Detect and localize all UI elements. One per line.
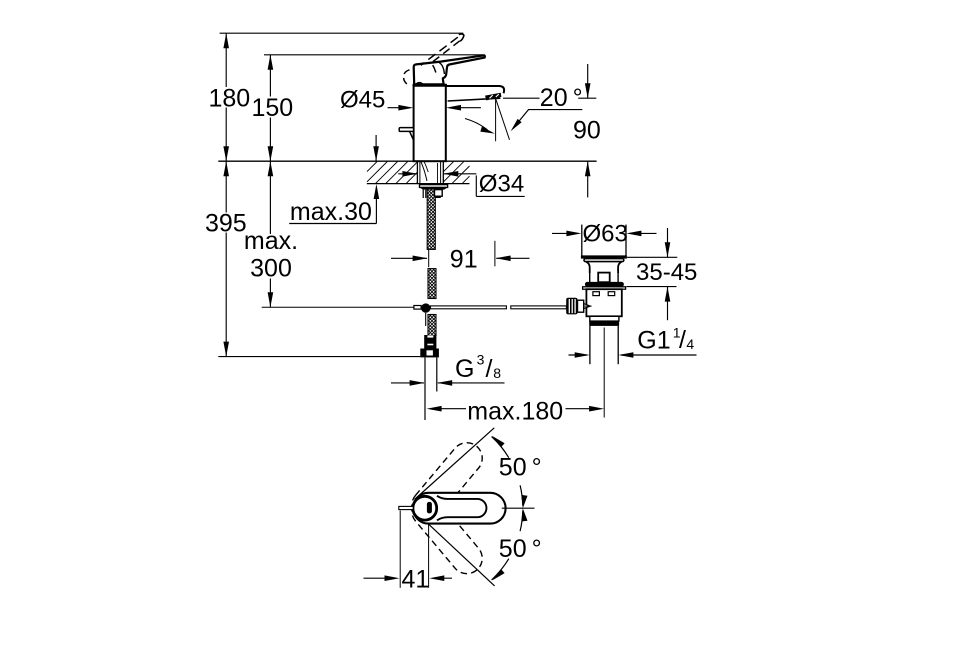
svg-text:35-45: 35-45 bbox=[636, 259, 697, 286]
deck hatching right of shank bbox=[444, 161, 454, 171]
91 gap centerline tick bbox=[428, 249, 430, 267]
raised handle tip bbox=[459, 34, 464, 41]
91 left line bbox=[391, 257, 427, 259]
dia45 arrow left bbox=[446, 105, 461, 111]
drain seal ring bbox=[585, 282, 624, 287]
dimension max300 arrow up bbox=[268, 161, 274, 176]
raised handle dashed edge 2 bbox=[431, 41, 460, 76]
nut tube lines bbox=[422, 190, 424, 198]
upper 50deg line bbox=[415, 428, 495, 500]
91 outlet extension tick bbox=[494, 241, 496, 266]
max30 vertical line bbox=[375, 188, 377, 224]
20deg label line right bbox=[578, 97, 596, 99]
max180 arrow right bbox=[589, 406, 604, 412]
extension line top of raised handle (180 ref) bbox=[220, 32, 464, 34]
hose segment upper bbox=[427, 184, 435, 250]
g114 arrow right bbox=[575, 352, 590, 358]
dia34 right arrow line bbox=[444, 173, 477, 175]
g114 arrow left bbox=[618, 352, 633, 358]
max30 down arrow stem bbox=[375, 135, 377, 161]
drain body slots bbox=[593, 292, 600, 296]
handle top view mark bbox=[427, 502, 432, 514]
svg-text:3: 3 bbox=[477, 351, 485, 367]
upper arc arrowhead at line bbox=[492, 436, 504, 447]
dia63 arrow right bbox=[566, 231, 581, 237]
svg-text:max.30: max.30 bbox=[290, 198, 372, 226]
dimension 90 arrow down bbox=[585, 83, 591, 98]
tube wall right bbox=[436, 357, 438, 391]
spout aerator bbox=[485, 93, 501, 101]
g38 arrow right bbox=[410, 380, 425, 386]
max30 arrow up bbox=[374, 184, 380, 199]
drain flange extension left bbox=[581, 225, 583, 256]
svg-text:150: 150 bbox=[252, 94, 294, 122]
20deg leader arrowhead bbox=[511, 119, 522, 131]
handle top view inner bbox=[437, 496, 486, 521]
hose end nut upper bbox=[424, 335, 436, 349]
41 right line bbox=[434, 577, 452, 579]
dimension 395 arrow up bbox=[223, 161, 229, 176]
svg-text:8: 8 bbox=[493, 365, 501, 381]
vertical reference line at outlet bbox=[495, 99, 497, 141]
hose segment middle bbox=[428, 269, 436, 299]
handle top view outline bbox=[413, 493, 505, 524]
dimension 150 arrow down bbox=[268, 146, 274, 161]
mounting nut bbox=[420, 187, 448, 189]
pivot ball bbox=[421, 303, 430, 312]
g38 arrow left bbox=[437, 380, 452, 386]
raised handle dashed edge 1 bbox=[421, 37, 458, 65]
tube wall left/extension bbox=[424, 357, 426, 420]
hose end nut lower bbox=[420, 349, 439, 358]
handle swing dashed -50deg (upper) bbox=[406, 436, 489, 527]
3545 top ext line bbox=[627, 256, 677, 258]
20deg label line left bbox=[503, 97, 540, 99]
dimension 150 line bbox=[269, 55, 271, 97]
deck surface line bbox=[218, 160, 596, 162]
drain flange extension right bbox=[625, 225, 627, 256]
dimension 180 arrow up bbox=[223, 33, 229, 48]
faucet body outline bbox=[414, 85, 446, 161]
raised handle dashed knuckle bbox=[404, 70, 410, 85]
svg-text:4: 4 bbox=[686, 336, 694, 352]
horizontal rod segment 1 bbox=[431, 306, 507, 309]
svg-text:300: 300 bbox=[250, 255, 292, 283]
3545 arrow down bbox=[665, 242, 671, 257]
drain rod clamp bbox=[578, 300, 584, 312]
41 arrow left bbox=[429, 575, 444, 581]
dia63 left line bbox=[552, 232, 578, 234]
rod clip bbox=[414, 306, 421, 310]
3545 lower stem bbox=[667, 287, 669, 321]
lower arc arrowhead at centerline bbox=[521, 508, 527, 521]
drain flange bottom thick bbox=[581, 255, 627, 258]
dimension 90 lower stem bbox=[587, 161, 589, 197]
hose entry curves bbox=[421, 161, 427, 181]
dia45 arrow right bbox=[398, 105, 413, 111]
drain knurled knob bbox=[566, 298, 577, 315]
shank wall right bbox=[442, 161, 444, 183]
drain boss square bbox=[598, 273, 610, 283]
horizontal rod segment 2 bbox=[511, 306, 567, 309]
deck bottom line bbox=[367, 183, 470, 185]
41 arrow right bbox=[385, 575, 400, 581]
dimension 180 line bbox=[225, 33, 227, 87]
svg-text:G1: G1 bbox=[637, 326, 670, 354]
rod guide block bbox=[435, 190, 443, 197]
dia63 arrow left bbox=[626, 231, 641, 237]
drain body side upper bbox=[589, 273, 591, 282]
dia45 right line bbox=[450, 107, 481, 109]
svg-text:max.: max. bbox=[244, 227, 298, 255]
svg-text:Ø45: Ø45 bbox=[340, 86, 385, 113]
drain clamp screw bbox=[584, 304, 591, 309]
dia34 arrow right bbox=[402, 171, 417, 177]
g114 left line bbox=[569, 354, 588, 356]
drain neck bbox=[586, 262, 621, 273]
hose segment lower bbox=[428, 315, 436, 336]
pull rod wedge bbox=[410, 132, 414, 140]
svg-text:41: 41 bbox=[402, 566, 430, 594]
svg-text:/: / bbox=[486, 355, 493, 383]
20deg slanted line bbox=[496, 99, 510, 140]
svg-text:50 °: 50 ° bbox=[499, 535, 542, 563]
g38 left line bbox=[391, 382, 424, 384]
max180 left line bbox=[432, 408, 466, 410]
drain flange lip bbox=[584, 259, 624, 262]
svg-text:91: 91 bbox=[450, 245, 478, 273]
pop-up pull rod bbox=[399, 128, 413, 132]
drain lower band dark bbox=[589, 321, 619, 326]
3545 arrow up bbox=[665, 287, 671, 302]
spout underside bbox=[448, 98, 501, 101]
svg-text:Ø34: Ø34 bbox=[479, 170, 524, 197]
dia45 left line bbox=[388, 107, 411, 109]
drain tailpipe right bbox=[617, 326, 619, 364]
lower 50deg arc seg B bbox=[520, 511, 523, 531]
20deg left arc arrowhead bbox=[480, 127, 495, 134]
lower 50deg line bbox=[429, 524, 495, 586]
20deg left arc bbox=[465, 119, 488, 131]
max180 right line bbox=[566, 408, 600, 410]
svg-text:395: 395 bbox=[205, 209, 247, 237]
shank wall left bbox=[416, 161, 418, 183]
handle front face curve bbox=[439, 62, 445, 74]
deck hatching left of shank bbox=[367, 161, 377, 171]
handle knuckle bottom curve bbox=[416, 83, 424, 85]
drain body block bbox=[586, 289, 621, 316]
dia34 arrow left bbox=[443, 171, 458, 177]
svg-text:Ø63: Ø63 bbox=[583, 220, 628, 247]
svg-text:max.180: max.180 bbox=[467, 397, 563, 425]
drain lock plate bbox=[583, 287, 626, 289]
3545 bottom ext line bbox=[627, 286, 677, 288]
centerline right bbox=[502, 507, 535, 509]
dimension 150 arrow up bbox=[268, 55, 274, 70]
91 arrow right bbox=[413, 256, 428, 262]
upper 50deg arc seg B bbox=[520, 485, 523, 505]
91 right line bbox=[496, 257, 529, 259]
dimension 395 arrow down bbox=[223, 342, 229, 357]
41 ext line left bbox=[399, 511, 401, 588]
dimension 180 arrow down bbox=[223, 146, 229, 161]
20deg leader bbox=[513, 110, 582, 129]
svg-text:50 °: 50 ° bbox=[499, 453, 542, 481]
svg-text:G: G bbox=[455, 355, 474, 383]
upper 50deg arc seg A bbox=[492, 437, 509, 458]
handle swing dashed +50deg (lower) bbox=[406, 489, 489, 580]
upper arc arrowhead at centerline bbox=[521, 495, 527, 508]
max30 arrow down bbox=[373, 146, 379, 161]
extension line top of handle (150 ref) bbox=[264, 54, 484, 56]
dia63 right line bbox=[630, 232, 657, 234]
handle lever solid bbox=[414, 55, 485, 84]
41 ext line right bbox=[428, 525, 430, 588]
g38 right line bbox=[438, 382, 505, 384]
dia34 left arrow line bbox=[398, 173, 417, 175]
dimension max300 arrow down bbox=[268, 292, 274, 307]
max30 underline bbox=[289, 223, 376, 225]
lower 50deg arc seg A bbox=[492, 559, 509, 580]
bottom reference line (395) bbox=[218, 356, 420, 358]
mounting washer bbox=[420, 185, 448, 188]
lower arc arrowhead at line bbox=[492, 569, 504, 580]
max180 arrow left bbox=[427, 406, 442, 412]
svg-text:90: 90 bbox=[573, 117, 601, 145]
reference line rod level (max.300) bbox=[262, 306, 414, 308]
svg-text:180: 180 bbox=[209, 84, 251, 112]
rod stub top view bbox=[399, 506, 413, 509]
91 arrow left bbox=[496, 256, 511, 262]
drain centerline bbox=[603, 328, 605, 418]
spout outline bbox=[446, 86, 504, 93]
dimension 90 upper stem bbox=[587, 64, 589, 98]
dimension 395 line bbox=[225, 161, 227, 212]
41 left line bbox=[364, 577, 395, 579]
dimension 90 arrow up bbox=[585, 161, 591, 176]
g114 right line bbox=[621, 354, 697, 356]
svg-text:20 °: 20 ° bbox=[540, 84, 583, 112]
drain lower band bbox=[590, 316, 619, 321]
svg-text:/: / bbox=[679, 326, 686, 354]
handle pivot circle bbox=[413, 496, 437, 520]
dimension max300 line bbox=[269, 161, 271, 234]
drain tailpipe left bbox=[589, 326, 591, 364]
3545 upper stem bbox=[667, 228, 669, 257]
dia34 label bracket bbox=[475, 175, 477, 196]
faucet body top thick line bbox=[413, 84, 447, 87]
